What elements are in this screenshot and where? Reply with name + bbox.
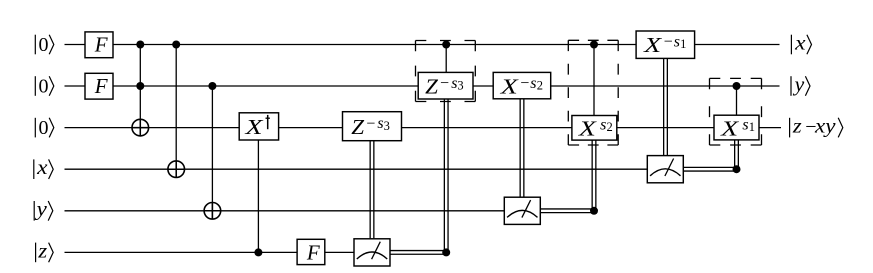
svg-text:−: −: [664, 34, 673, 51]
svg-text:s: s: [530, 75, 536, 92]
svg-text:2: 2: [607, 120, 613, 134]
svg-text:1: 1: [680, 37, 686, 51]
svg-text:−: −: [440, 75, 449, 92]
svg-text:s: s: [674, 33, 680, 50]
svg-text:−: −: [366, 116, 375, 133]
svg-text:2: 2: [537, 78, 543, 92]
svg-text:X: X: [643, 33, 663, 57]
svg-text:x: x: [36, 157, 48, 179]
svg-text:3: 3: [457, 78, 463, 92]
svg-text:−: −: [520, 75, 529, 92]
svg-text:Z: Z: [351, 115, 364, 139]
svg-text:y: y: [34, 199, 47, 221]
svg-text:X: X: [244, 115, 264, 139]
svg-text:F: F: [306, 240, 320, 264]
svg-text:xy: xy: [814, 116, 836, 138]
svg-text:3: 3: [384, 119, 390, 133]
svg-text:s: s: [742, 116, 748, 133]
svg-text:Z: Z: [425, 75, 438, 99]
svg-text:z: z: [37, 240, 47, 262]
svg-text:0: 0: [39, 117, 49, 139]
svg-text:X: X: [499, 75, 519, 99]
svg-text:X: X: [720, 116, 740, 140]
svg-text:X: X: [578, 116, 598, 140]
svg-text:1: 1: [749, 120, 755, 134]
svg-text:F: F: [94, 32, 108, 56]
svg-text:F: F: [94, 74, 108, 98]
svg-text:s: s: [600, 116, 606, 133]
svg-text:y: y: [792, 74, 804, 96]
svg-text:z: z: [792, 116, 802, 138]
svg-text:0: 0: [39, 75, 49, 97]
svg-text:x: x: [794, 32, 806, 54]
svg-text:0: 0: [39, 34, 49, 56]
